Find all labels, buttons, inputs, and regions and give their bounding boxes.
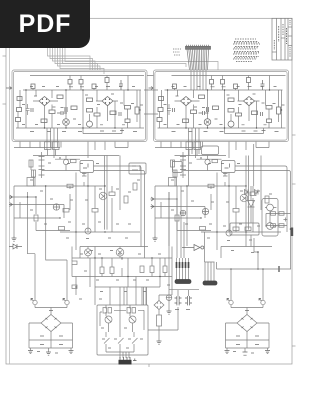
trimmer RV2	[202, 208, 208, 214]
resistor R61a	[127, 308, 131, 314]
terminal T4 arrow	[259, 299, 262, 302]
ribbon bundle B wires	[205, 262, 214, 281]
wire	[53, 46, 96, 70]
ground GND1	[12, 236, 17, 241]
wire zener feed	[250, 186, 252, 247]
trimmer RV6 cross	[180, 210, 186, 216]
ground GND3	[157, 341, 162, 344]
bundle A pin sleeves	[177, 262, 189, 268]
terminal T4	[261, 300, 265, 304]
transistor Q16 leads	[118, 250, 122, 254]
trimmer RV1	[53, 204, 59, 210]
wire	[58, 46, 101, 70]
resistor R39	[212, 160, 218, 163]
wire bundle B feed	[205, 232, 215, 262]
relay K1a	[45, 142, 52, 150]
resistor R33	[250, 192, 256, 196]
value labels bottom-center	[79, 254, 161, 299]
BR2 diode marks	[242, 318, 253, 328]
U10 internal wires	[265, 208, 276, 227]
bottom verticals	[72, 247, 172, 306]
resistor R13	[41, 119, 47, 123]
capacitor C2	[57, 111, 67, 115]
transistor Q5 leads	[101, 194, 105, 199]
wire long vertical D	[186, 186, 188, 246]
junction dot right edge	[290, 228, 292, 230]
capacitor ladder CL2	[180, 152, 186, 178]
capacitor C8	[34, 215, 38, 221]
control box outline	[97, 305, 148, 355]
wire BR1 rail top	[29, 339, 73, 341]
left channel shield box inner	[13, 71, 145, 140]
resistor R50	[100, 267, 104, 274]
junction dots mid-left	[28, 158, 106, 232]
diode D22	[255, 190, 259, 195]
input arrow into right block	[149, 87, 154, 90]
resistor R32	[233, 209, 239, 213]
resistor R20	[59, 227, 65, 231]
revision mark on border	[291, 228, 293, 237]
varistor bridge D30 diamond	[154, 301, 164, 310]
box B2	[169, 178, 177, 187]
wire BR2 rail top	[226, 339, 270, 341]
transistor Q5	[99, 192, 107, 200]
border tick marks	[3, 56, 296, 367]
resistor R56	[72, 285, 77, 289]
diode D5	[9, 244, 22, 249]
capacitor C11	[223, 174, 228, 177]
transistor Q15	[85, 249, 92, 256]
trimmer RV1 cross	[53, 204, 59, 210]
trimmer RV4	[129, 316, 136, 323]
input arrow into left block	[6, 87, 12, 90]
wire corner loop 3	[235, 166, 287, 214]
wire BR2 rail bottom	[226, 347, 270, 349]
wire	[55, 46, 98, 70]
wire top bus	[30, 76, 144, 91]
wire mixer links	[33, 100, 118, 102]
capacitor C1	[26, 104, 30, 115]
wire vertical drops	[18, 76, 140, 129]
wire corner loop 4	[235, 171, 291, 270]
wire power rail 3	[95, 286, 160, 288]
sheet border frame	[6, 18, 292, 364]
resistor R8	[87, 109, 93, 113]
capacitor C9	[82, 174, 87, 177]
resistor R16	[57, 95, 63, 99]
title block text	[274, 20, 290, 57]
resistor R31	[208, 184, 214, 188]
resistor R40	[233, 227, 239, 231]
wire long vertical A	[28, 192, 36, 300]
terminal T3 arrow	[227, 299, 230, 302]
junction dots U10 feed	[231, 252, 263, 269]
resistor R51	[110, 267, 114, 274]
input jack JL2	[9, 203, 13, 207]
ground GND7	[225, 351, 230, 354]
BR2 labels	[233, 311, 259, 354]
junction dots bottom	[76, 258, 160, 287]
cap labels	[167, 285, 190, 310]
notes text block	[233, 39, 260, 62]
ribbon bundle A wires	[177, 258, 189, 280]
transistor Q15 leads	[86, 251, 90, 255]
ground GND4	[28, 351, 33, 354]
wire RV5 tail	[168, 301, 170, 312]
module A4 innards	[225, 164, 230, 169]
resistor R52	[140, 266, 144, 273]
junction dots	[26, 90, 140, 128]
control box exit wires	[106, 352, 134, 358]
resistor R55	[72, 261, 77, 265]
bridge BR1 diamond	[41, 315, 61, 332]
wire power rail 2	[72, 276, 172, 278]
resistor R1	[17, 108, 22, 112]
left channel shield box outer	[12, 70, 147, 142]
ribbon bundle A connector	[175, 280, 191, 284]
bundle wires inside right block	[191, 70, 206, 90]
resistor R4	[79, 80, 83, 85]
resistor R12	[125, 119, 130, 123]
sheet margin line	[9, 18, 11, 364]
resistor R24	[124, 196, 128, 203]
trimmer RV2 cross	[202, 208, 208, 214]
input jack JL1	[9, 195, 13, 199]
resistor R44	[271, 224, 276, 228]
diode D21	[245, 190, 249, 195]
wire U10 to rails	[231, 238, 263, 300]
wire input R2	[154, 206, 205, 208]
transistor Q7 leads	[242, 196, 246, 201]
module A2 innards	[83, 164, 88, 169]
wire right block pin stubs	[155, 142, 269, 159]
resistor R37	[171, 160, 175, 167]
resistor R9	[87, 98, 93, 102]
relay K1b	[53, 142, 60, 150]
wire bundle B to right rail	[217, 262, 292, 269]
module B3 box	[173, 162, 183, 173]
resistor R17	[17, 97, 22, 101]
resistor R41	[245, 227, 251, 231]
wire BR1 rail bottom	[29, 347, 73, 349]
resistor R14	[71, 106, 77, 110]
junction dots mid-right	[169, 158, 246, 232]
trimmer RV4 arrow	[130, 317, 135, 322]
switch SW2	[118, 305, 124, 352]
capacitor C10	[175, 215, 179, 221]
wire BR2 rail links	[226, 340, 270, 352]
input jack JR1	[151, 197, 155, 201]
wire box to cap bank	[148, 307, 178, 330]
connector J2 pin ticks	[187, 45, 209, 47]
trimmer RV5 cross	[166, 295, 172, 301]
transistor Q1 leads	[64, 121, 68, 124]
capacitor C15 tick	[278, 266, 280, 272]
input jack JR2	[151, 205, 155, 209]
switch SW1	[104, 332, 110, 352]
wire centre drops	[124, 287, 147, 305]
wire bridge top link	[35, 305, 67, 315]
ground GND2	[153, 236, 158, 241]
wire cap bank feed	[169, 192, 199, 296]
circle U12 out	[201, 246, 204, 249]
resistor R21	[67, 184, 73, 188]
box A2 innards	[132, 165, 140, 171]
D30 diode ticks	[157, 303, 161, 308]
wire inter-block links	[144, 76, 158, 115]
BR1 diode marks	[46, 318, 57, 328]
wire rows right half	[155, 156, 281, 247]
mains connector X1 pins	[120, 357, 137, 361]
ground GND8	[243, 352, 248, 355]
resistor R38	[173, 170, 177, 177]
wire input R1	[154, 198, 177, 200]
ground GND9	[265, 351, 270, 354]
ground GND6	[69, 351, 74, 354]
title block	[272, 18, 292, 60]
wire harness from top-left connector (under badge)	[48, 46, 91, 70]
wire main bus	[23, 89, 141, 91]
connector J2 body	[186, 46, 211, 49]
terminal T2 arrow	[63, 299, 66, 302]
wire verticals right half	[155, 144, 261, 258]
resistor R15	[110, 111, 116, 115]
wire verticals left half	[14, 150, 120, 259]
wire bottom rail	[16, 127, 144, 129]
triangle buffer U12	[182, 245, 201, 251]
wire to right half	[65, 46, 218, 70]
transistor Q11	[267, 223, 274, 230]
transistor Q9	[205, 159, 210, 164]
module A4 box	[222, 161, 236, 173]
bridge BR2 diamond	[237, 315, 257, 332]
rectifier block right : terminal T3	[229, 300, 233, 304]
resistor R6	[49, 110, 55, 114]
resistor R10	[125, 106, 131, 110]
transistor Q1	[63, 119, 70, 126]
resistor R54	[163, 266, 167, 273]
relay K2b	[194, 142, 201, 150]
transistor Q16	[116, 249, 124, 257]
wire	[50, 46, 93, 70]
mixer X1 dots	[43, 99, 47, 103]
wire Q15 Q16 stubs	[88, 247, 120, 259]
wire to right half	[63, 46, 187, 67]
resistor R42	[271, 212, 276, 216]
box A2	[129, 163, 146, 174]
resistor R22	[92, 209, 98, 213]
capacitor C5	[65, 107, 67, 112]
wire BR1 rail links	[29, 340, 73, 352]
resistor R3	[68, 80, 72, 85]
transistor Q4	[63, 159, 68, 164]
resistor R28	[32, 170, 36, 177]
capacitor C20	[175, 296, 182, 305]
ground GND5	[46, 352, 51, 355]
resistor R2	[16, 118, 21, 122]
resistor R29	[92, 84, 96, 89]
wire left block pin stubs	[14, 142, 128, 159]
regulator block U10	[262, 199, 278, 237]
transistor Q10	[267, 204, 274, 211]
resistor R53	[150, 266, 154, 273]
wire BR2 sides	[226, 323, 270, 340]
wire power rail 1	[72, 257, 172, 259]
component value labels	[22, 87, 143, 132]
wire long vertical B	[46, 186, 67, 300]
fuse F1 wires	[158, 310, 160, 342]
wire corner loop 2	[94, 171, 145, 259]
resistor R30	[200, 227, 206, 231]
value labels control box	[101, 328, 143, 348]
wire	[60, 46, 104, 74]
wire input L2	[13, 204, 65, 206]
mixer X2 diamond	[102, 97, 113, 106]
box B1	[27, 178, 35, 187]
resistor R26	[63, 209, 69, 213]
value labels mid-left	[30, 163, 140, 251]
wire long vertical C	[168, 192, 170, 246]
capacitor ladder CL1	[39, 152, 45, 178]
resistor R34	[265, 196, 269, 203]
resistor R43	[279, 212, 284, 216]
resistor R60a	[103, 308, 107, 314]
control box wiring	[100, 305, 144, 332]
wire feeds to bundle A	[177, 186, 184, 258]
BR1 labels	[37, 311, 63, 354]
trimmer RV3 arrow	[106, 317, 111, 322]
wire BR1 sides	[29, 323, 73, 340]
resistor R23	[109, 192, 115, 196]
ground GND10	[167, 311, 172, 314]
relay K2	[202, 146, 219, 155]
resistor R45	[279, 224, 284, 228]
wire right-edge rows	[266, 214, 291, 233]
trimmer RV5	[166, 295, 172, 301]
terminal T1 arrow	[31, 299, 34, 302]
capacitor C3	[31, 108, 33, 112]
zener triangle D20	[248, 201, 255, 208]
note label left of connector	[173, 49, 181, 55]
mains connector X1 hatched	[119, 360, 132, 365]
capacitor C4	[119, 112, 121, 116]
wire partial lower rail	[83, 128, 122, 134]
trimmer RV3	[105, 316, 112, 323]
mixer X1 diamond	[39, 97, 50, 106]
wire left channel exits	[47, 128, 61, 158]
capacitor C21	[185, 296, 192, 305]
resistor R11	[135, 107, 139, 114]
value labels mid-right	[171, 163, 272, 253]
wire rows left half	[14, 156, 148, 247]
wire input L1	[13, 196, 37, 198]
wire bridge top link right	[231, 305, 263, 315]
transistor Q2	[87, 121, 93, 127]
ribbon bundle B connector	[203, 281, 217, 285]
wire corner loop 1	[94, 166, 142, 247]
filter box U11	[230, 223, 259, 235]
resistor R25	[133, 183, 137, 190]
transistor Q7	[240, 194, 248, 202]
rectifier block left : terminal T1	[33, 300, 37, 304]
resistor R19	[71, 160, 77, 163]
trimmer RV6	[180, 210, 186, 216]
relay K2a	[186, 142, 193, 150]
resistor R18	[31, 84, 35, 89]
resistor R5	[105, 78, 109, 83]
terminal T2	[65, 300, 69, 304]
resistor R7	[94, 113, 100, 116]
resistor R61b	[132, 308, 136, 314]
connector J2 wire bundle	[187, 49, 209, 70]
right channel shield block (mirror copy)	[154, 70, 289, 142]
transistor Q8	[226, 230, 232, 236]
module A2 box	[80, 161, 94, 173]
PDF badge	[0, 0, 90, 48]
resistor R60b	[108, 308, 112, 314]
mixer X2 dots	[106, 99, 110, 103]
transistor Q6	[85, 228, 91, 234]
wire right channel exits	[189, 128, 203, 186]
capacitor C6	[119, 80, 123, 90]
wire bridge feed	[159, 277, 172, 301]
fuse F1	[157, 315, 162, 326]
resistor R27	[29, 160, 33, 167]
wire stubs bus	[33, 89, 94, 91]
switch SW3	[132, 332, 138, 352]
